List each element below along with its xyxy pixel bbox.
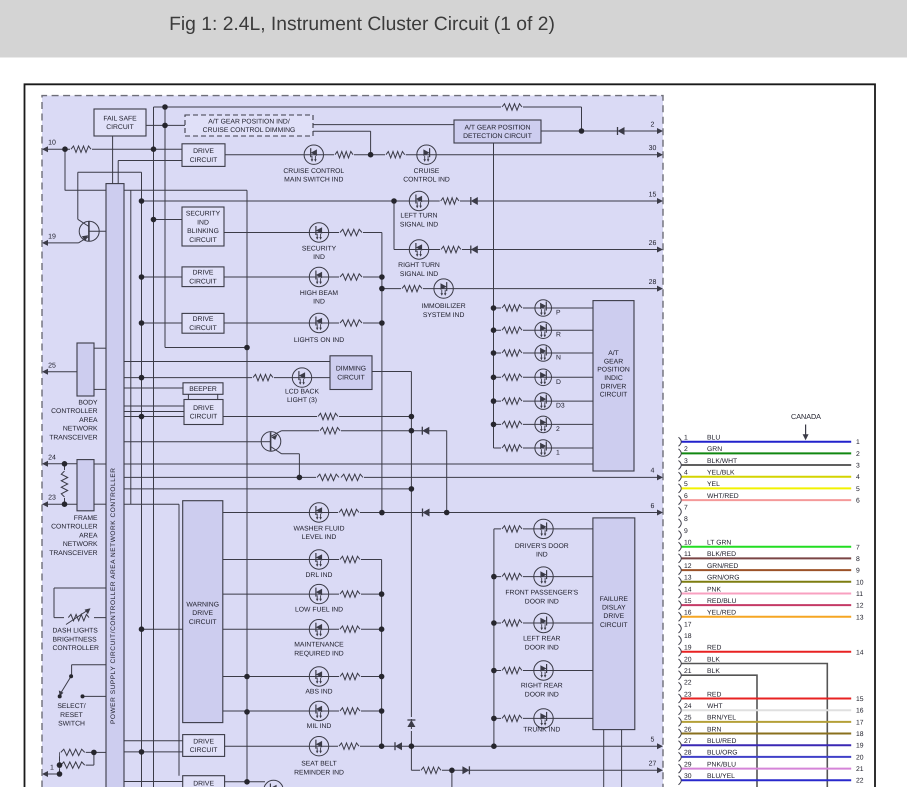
svg-text:30: 30 xyxy=(649,145,657,152)
resistor row430 xyxy=(319,427,341,435)
svg-text:24: 24 xyxy=(48,454,56,461)
wire pin-27 row xyxy=(411,769,661,771)
svg-text:FAILURE: FAILURE xyxy=(600,596,629,603)
pin 25 arrow xyxy=(42,362,56,375)
pin 27 arrow xyxy=(649,761,663,774)
box security ind blinking circuit xyxy=(182,207,224,246)
svg-text:18: 18 xyxy=(684,633,692,640)
wire immobilizer row y288 xyxy=(382,288,661,290)
svg-text:23: 23 xyxy=(48,495,56,502)
box a/t gear position detection xyxy=(454,120,541,143)
resistor CAN termination xyxy=(61,470,69,498)
svg-text:7: 7 xyxy=(684,505,688,512)
wire pin-23 row xyxy=(44,503,77,505)
svg-text:SECURITY: SECURITY xyxy=(302,245,337,252)
LED right turn signal ind xyxy=(409,240,428,259)
svg-text:BEEPER: BEEPER xyxy=(189,386,217,393)
svg-text:BRIGHTNESS: BRIGHTNESS xyxy=(53,636,98,643)
wire transistor Q2 base row xyxy=(124,441,261,443)
svg-text:10: 10 xyxy=(684,540,692,547)
wire gear row 3 xyxy=(494,352,594,354)
resistor maintenance xyxy=(339,625,361,633)
svg-text:LEVEL IND: LEVEL IND xyxy=(302,534,337,541)
wire gear row 2 xyxy=(494,329,594,331)
label frame controller transceiver xyxy=(49,515,98,557)
svg-text:FAIL SAFE: FAIL SAFE xyxy=(103,115,137,122)
wire dash-lights top xyxy=(54,587,106,589)
svg-text:DRIVE: DRIVE xyxy=(603,613,624,620)
wire cruise row y154 xyxy=(225,154,661,156)
svg-text:12: 12 xyxy=(856,603,864,610)
wire row y347 xyxy=(165,347,247,349)
LED cruise control ind xyxy=(417,145,436,164)
connector row 20 xyxy=(679,656,828,789)
wire gear row 6 xyxy=(494,423,594,425)
svg-text:RIGHT REAR: RIGHT REAR xyxy=(521,683,563,690)
svg-text:YEL: YEL xyxy=(707,481,720,488)
connector row 7 xyxy=(679,505,689,517)
wire pin-1 vertical x59 xyxy=(59,752,61,774)
wire drive1 stub b xyxy=(124,751,183,753)
svg-text:1: 1 xyxy=(856,439,860,446)
svg-text:CIRCUIT: CIRCUIT xyxy=(189,237,217,244)
svg-text:13: 13 xyxy=(684,575,692,582)
svg-text:22: 22 xyxy=(856,778,864,785)
svg-text:DASH LIGHTS: DASH LIGHTS xyxy=(53,628,99,635)
svg-text:IND: IND xyxy=(536,552,548,559)
LED front passenger's door ind xyxy=(534,567,553,586)
svg-text:DRIVER'S DOOR: DRIVER'S DOOR xyxy=(515,543,569,550)
indicator labels xyxy=(283,168,578,776)
label select/reset switch xyxy=(57,703,85,728)
wire body stub top xyxy=(94,347,106,349)
wire branch row y190 xyxy=(65,189,247,191)
connector row 15 xyxy=(679,598,864,610)
svg-text:1: 1 xyxy=(684,435,688,442)
wire abs row y676 xyxy=(223,676,382,678)
svg-text:SEAT BELT: SEAT BELT xyxy=(301,761,337,768)
diode washer pin-6 xyxy=(423,509,430,517)
wire pin-1 row xyxy=(44,773,60,775)
svg-text:13: 13 xyxy=(856,614,864,621)
diode pin-2 xyxy=(618,127,625,135)
wire lights-on row y323 xyxy=(224,322,382,324)
svg-text:POSITION: POSITION xyxy=(597,367,630,374)
svg-text:D3: D3 xyxy=(556,403,565,410)
box drive circuit high beam xyxy=(182,267,224,287)
svg-text:DOOR IND: DOOR IND xyxy=(525,598,559,605)
wire chain x382 upper xyxy=(381,233,383,513)
resistor pin-1 b xyxy=(60,761,86,769)
wire pin-25 row xyxy=(44,371,77,373)
svg-text:BODY: BODY xyxy=(78,399,98,406)
svg-text:LT GRN: LT GRN xyxy=(707,540,731,547)
svg-text:NETWORK: NETWORK xyxy=(63,426,98,433)
svg-text:10: 10 xyxy=(48,140,56,147)
svg-text:R: R xyxy=(556,332,561,339)
svg-text:16: 16 xyxy=(856,708,864,715)
connector row 12 xyxy=(679,563,861,575)
svg-text:RED: RED xyxy=(707,645,721,652)
svg-text:15: 15 xyxy=(684,598,692,605)
label warning drive circuit xyxy=(186,601,219,626)
box a/t gear position ind dimming xyxy=(185,115,313,136)
svg-text:6: 6 xyxy=(856,498,860,505)
svg-text:CIRCUIT: CIRCUIT xyxy=(600,622,628,629)
svg-text:SIGNAL IND: SIGNAL IND xyxy=(400,271,438,278)
svg-text:CONTROLLER: CONTROLLER xyxy=(51,524,98,531)
svg-text:FRONT PASSENGER'S: FRONT PASSENGER'S xyxy=(505,590,578,597)
connector row 10 xyxy=(679,540,861,552)
LED trunk ind xyxy=(534,709,553,728)
LED gear R xyxy=(535,322,552,339)
connector row 30 xyxy=(679,773,864,785)
resistor pin-10 xyxy=(70,145,92,153)
svg-text:TRANSCEIVER: TRANSCEIVER xyxy=(49,550,97,557)
svg-text:REQUIRED IND: REQUIRED IND xyxy=(294,651,344,658)
label a/t gear position indic driver circuit xyxy=(597,350,630,399)
svg-text:2: 2 xyxy=(856,451,860,458)
wire vertical x394 xyxy=(393,201,395,250)
connector row 11 xyxy=(679,551,861,563)
resistor pin-4 a xyxy=(316,473,340,481)
wire fail-safe to bar xyxy=(112,136,114,184)
svg-text:29: 29 xyxy=(684,761,692,768)
resistor mil xyxy=(339,707,361,715)
wire beeper-drive link a xyxy=(187,394,189,399)
wire vertical x370 xyxy=(370,131,372,155)
svg-text:CRUISE CONTROL DIMMING: CRUISE CONTROL DIMMING xyxy=(203,127,296,134)
pin 6 arrow xyxy=(651,503,663,516)
potentiometer dash lights xyxy=(64,608,94,624)
svg-text:BLU/ORG: BLU/ORG xyxy=(707,750,738,757)
connector row 29 xyxy=(679,761,864,773)
wire bus x153 xyxy=(153,107,155,789)
resistor door 3 xyxy=(501,619,523,627)
svg-text:6: 6 xyxy=(651,503,655,510)
svg-text:MIL IND: MIL IND xyxy=(307,723,332,730)
LED gear N xyxy=(535,345,552,362)
svg-text:CIRCUIT: CIRCUIT xyxy=(106,124,134,131)
connector row 9 xyxy=(679,528,689,540)
resistor gear 6 xyxy=(501,420,523,428)
svg-text:27: 27 xyxy=(649,761,657,768)
svg-text:5: 5 xyxy=(651,737,655,744)
resistor immobilizer xyxy=(401,285,423,293)
wire vertical x165 xyxy=(164,107,166,348)
svg-text:CIRCUIT: CIRCUIT xyxy=(190,414,218,421)
wire emitter row y453 xyxy=(282,453,300,455)
svg-text:WASHER FLUID: WASHER FLUID xyxy=(293,525,344,532)
svg-text:BLU/YEL: BLU/YEL xyxy=(707,773,735,780)
connector row 4 xyxy=(679,470,861,482)
wire vertical x179 xyxy=(178,504,180,776)
svg-text:DRIVE: DRIVE xyxy=(193,738,214,745)
resistor lcd backlight xyxy=(252,374,274,382)
label canada xyxy=(791,412,821,440)
svg-text:WHT: WHT xyxy=(707,703,722,710)
box beeper xyxy=(183,383,223,395)
svg-text:26: 26 xyxy=(649,240,657,247)
wire row y488 xyxy=(124,488,411,490)
LED right rear door ind xyxy=(534,661,553,680)
LED bottom cut xyxy=(264,780,283,799)
svg-text:SELECT/: SELECT/ xyxy=(57,703,85,710)
svg-text:CRUISE CONTROL: CRUISE CONTROL xyxy=(283,168,344,175)
resistor gear 7 xyxy=(501,444,523,452)
wire failure bottom lead b xyxy=(621,730,623,789)
svg-text:LIGHTS ON IND: LIGHTS ON IND xyxy=(294,337,344,344)
box drive circuit lcd xyxy=(184,400,223,425)
svg-text:ABS IND: ABS IND xyxy=(305,689,332,696)
wire term resistor link top xyxy=(64,464,66,471)
svg-text:22: 22 xyxy=(684,680,692,687)
svg-text:BRN/YEL: BRN/YEL xyxy=(707,715,736,722)
diode row430 xyxy=(422,427,429,435)
svg-text:LEFT REAR: LEFT REAR xyxy=(523,636,560,643)
resistor abs xyxy=(339,673,361,681)
connector row 16 xyxy=(679,610,864,622)
svg-text:BLINKING: BLINKING xyxy=(187,228,219,235)
wire dimming right stub xyxy=(371,371,412,373)
connector row 5 xyxy=(679,481,861,493)
LED high beam ind xyxy=(309,267,328,286)
svg-text:7: 7 xyxy=(856,544,860,551)
svg-text:MAINTENANCE: MAINTENANCE xyxy=(294,642,344,649)
connector row 17 xyxy=(679,621,692,633)
svg-text:CIRCUIT: CIRCUIT xyxy=(337,374,365,381)
svg-text:LEFT TURN: LEFT TURN xyxy=(400,213,437,220)
wire stub to bar y752 xyxy=(94,751,106,753)
LED security ind xyxy=(309,223,328,242)
svg-text:DRIVE: DRIVE xyxy=(193,405,214,412)
box drive circuit lights on xyxy=(182,313,224,333)
wire dash-lights left xyxy=(53,588,55,618)
wire seat-belt pin-5 row xyxy=(225,745,661,747)
svg-text:11: 11 xyxy=(684,551,691,558)
wire drive2 out row xyxy=(225,781,265,783)
LED driver's door ind xyxy=(534,519,553,538)
svg-text:DRIVE: DRIVE xyxy=(193,781,214,788)
wire fail-safe to dimming box xyxy=(146,124,185,126)
svg-text:9: 9 xyxy=(684,528,688,535)
resistor security xyxy=(339,229,363,237)
svg-text:YEL/BLK: YEL/BLK xyxy=(707,470,735,477)
svg-text:INDIC: INDIC xyxy=(604,375,623,382)
wire warning stub xyxy=(142,628,184,630)
resistor lights-on xyxy=(339,319,363,327)
box dimming circuit xyxy=(330,356,372,390)
wire washer pin-6 row xyxy=(223,512,661,514)
svg-text:28: 28 xyxy=(684,750,692,757)
label dash lights brightness controller xyxy=(53,628,100,653)
wire low-fuel row y594 xyxy=(223,593,382,595)
svg-text:19: 19 xyxy=(684,645,692,652)
box power supply controller bar xyxy=(106,184,124,799)
svg-text:IND: IND xyxy=(313,254,325,261)
wire drive2 stub xyxy=(124,781,183,783)
svg-text:2: 2 xyxy=(684,446,688,453)
svg-text:DRL IND: DRL IND xyxy=(306,572,333,579)
LED left turn signal ind xyxy=(409,191,428,210)
wire drive-lcd stub a xyxy=(124,405,184,407)
pin 24 arrow xyxy=(42,454,56,467)
wire failure bottom lead a xyxy=(603,730,605,789)
svg-text:1: 1 xyxy=(50,765,54,772)
svg-text:LCD BACK: LCD BACK xyxy=(285,388,319,395)
wire drop x451 xyxy=(451,770,453,789)
wire door row 5 xyxy=(494,717,593,719)
svg-text:23: 23 xyxy=(684,691,692,698)
svg-text:3: 3 xyxy=(684,458,688,465)
svg-text:20: 20 xyxy=(856,754,864,761)
svg-text:DOOR IND: DOOR IND xyxy=(525,644,559,651)
svg-text:RED: RED xyxy=(707,691,721,698)
wire body stub bottom xyxy=(94,388,106,390)
wire mil row y711 xyxy=(223,710,382,712)
pin 28 arrow xyxy=(649,279,663,292)
wire chain x382 lower xyxy=(381,560,383,747)
wire dash-lights bottom xyxy=(54,617,106,619)
wire gear row 4 xyxy=(494,376,594,378)
svg-text:GRN/ORG: GRN/ORG xyxy=(707,575,739,582)
connector row 27 xyxy=(679,738,864,750)
LED drl ind xyxy=(309,550,328,569)
svg-text:28: 28 xyxy=(649,279,657,286)
svg-text:25: 25 xyxy=(48,362,56,369)
connector row 25 xyxy=(679,715,864,727)
wire gear row 7 xyxy=(494,447,594,449)
resistor door 4 xyxy=(501,667,523,675)
svg-text:IND: IND xyxy=(197,219,209,226)
resistor right-turn xyxy=(440,246,462,254)
connector row 21 xyxy=(679,668,758,789)
LED washer fluid level ind xyxy=(309,503,328,522)
pin 1 arrow xyxy=(42,765,54,778)
svg-text:SWITCH: SWITCH xyxy=(58,721,85,728)
svg-text:DIMMING: DIMMING xyxy=(336,366,366,373)
svg-text:24: 24 xyxy=(684,703,692,710)
resistor gear 5 xyxy=(501,397,523,405)
svg-text:3: 3 xyxy=(856,463,860,470)
svg-text:CANADA: CANADA xyxy=(791,412,821,421)
wire vertical x446 xyxy=(446,431,448,513)
svg-text:18: 18 xyxy=(856,731,864,738)
pin 15 arrow xyxy=(649,191,663,204)
box drive circuit bottom2 xyxy=(183,776,225,799)
diode pin-27 xyxy=(462,766,469,774)
svg-text:A/T: A/T xyxy=(608,350,619,357)
svg-text:IMMOBILIZER: IMMOBILIZER xyxy=(422,303,466,310)
svg-text:BLK/WHT: BLK/WHT xyxy=(707,458,737,465)
resistor drl xyxy=(339,556,361,564)
pin 26 arrow xyxy=(649,240,663,253)
resistor high-beam xyxy=(339,273,363,281)
svg-text:16: 16 xyxy=(684,610,692,617)
connector row 13 xyxy=(679,575,864,587)
wire pin-23 row right xyxy=(124,503,179,505)
svg-text:DRIVER: DRIVER xyxy=(601,383,627,390)
svg-text:GRN: GRN xyxy=(707,446,722,453)
wire vertical x411 lower xyxy=(410,729,412,770)
wire drive1 stub a xyxy=(124,740,183,742)
LED gear 2 xyxy=(535,416,552,433)
resistor gear 4 xyxy=(501,373,523,381)
wire frame stub bottom xyxy=(94,503,106,505)
wire pin-10 branch vertical xyxy=(64,149,66,190)
wire dimming box to detection box xyxy=(313,124,454,126)
svg-text:PNK: PNK xyxy=(707,586,721,593)
LED maintenance required ind xyxy=(309,620,328,639)
resistor gear 1 xyxy=(501,304,523,312)
svg-text:17: 17 xyxy=(856,719,864,726)
wire term resistor link bottom xyxy=(64,497,66,504)
wire door row 3 xyxy=(494,622,593,624)
LED abs ind xyxy=(309,667,328,686)
header bar xyxy=(0,0,907,58)
connector row 3 xyxy=(679,458,861,470)
svg-text:DISLAY: DISLAY xyxy=(602,605,626,612)
svg-text:TRUNK IND: TRUNK IND xyxy=(523,727,560,734)
LED cruise control main switch ind xyxy=(304,145,323,164)
svg-text:SIGNAL IND: SIGNAL IND xyxy=(400,222,438,229)
wire row y416 xyxy=(124,416,411,418)
svg-text:BLK: BLK xyxy=(707,668,720,675)
svg-text:DRIVE: DRIVE xyxy=(193,270,214,277)
wire lights-on stub xyxy=(142,322,183,324)
svg-text:P: P xyxy=(556,310,561,317)
wire dimming stub lower xyxy=(313,130,371,132)
wire door row 4 xyxy=(494,670,593,672)
connector row 19 xyxy=(679,645,864,657)
transistor Q2 xyxy=(261,431,281,454)
wire high-beam row y277 xyxy=(224,276,382,278)
wire parallel res row b xyxy=(60,764,94,766)
svg-text:A/T GEAR POSITION: A/T GEAR POSITION xyxy=(465,124,531,131)
svg-text:NETWORK: NETWORK xyxy=(63,541,98,548)
svg-text:20: 20 xyxy=(684,656,692,663)
LED lights on ind xyxy=(309,313,328,332)
svg-text:CONTROLLER: CONTROLLER xyxy=(53,645,100,652)
LED seat belt reminder ind xyxy=(309,737,328,756)
connector row 22 xyxy=(679,680,692,692)
svg-text:DRIVE: DRIVE xyxy=(193,148,214,155)
svg-text:D: D xyxy=(556,379,561,386)
box fail safe circuit xyxy=(94,109,146,136)
resistor pin-1 a xyxy=(60,748,86,756)
wire vertical x411 upper xyxy=(410,372,412,720)
svg-text:19: 19 xyxy=(48,233,56,240)
svg-text:WHT/RED: WHT/RED xyxy=(707,493,739,500)
resistor door 1 xyxy=(501,525,523,533)
svg-text:LOW FUEL IND: LOW FUEL IND xyxy=(295,607,343,614)
label power supply bar xyxy=(110,468,117,724)
resistor cruise b xyxy=(385,151,406,159)
LED left rear door ind xyxy=(534,613,553,632)
LED low fuel ind xyxy=(309,584,328,603)
svg-text:CRUISE: CRUISE xyxy=(414,168,440,175)
svg-text:21: 21 xyxy=(856,766,864,773)
connector row 6 xyxy=(679,493,861,505)
resistor low-fuel xyxy=(339,590,361,598)
resistor row416 xyxy=(317,413,339,421)
svg-text:26: 26 xyxy=(684,726,692,733)
svg-text:2: 2 xyxy=(556,426,560,433)
wire maintenance row y629 xyxy=(223,628,382,630)
wire vertical x94 xyxy=(93,752,95,765)
connector row 28 xyxy=(679,750,864,762)
pin 4 arrow xyxy=(651,468,663,481)
